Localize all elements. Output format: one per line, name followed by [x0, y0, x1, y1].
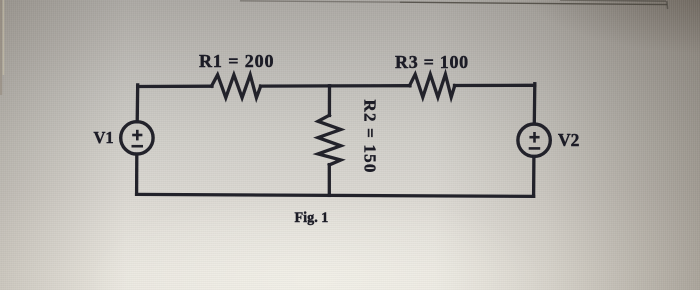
wire left vertical lower — [135, 154, 138, 194]
resistor R1 — [212, 75, 261, 98]
photo left edge — [0, 0, 3, 95]
wire top middle-to-R3 horizontal — [330, 84, 411, 88]
voltage source V1 — [121, 122, 153, 154]
wire top-right horizontal — [455, 84, 535, 87]
wire middle vertical lower — [328, 165, 331, 196]
wire top-middle horizontal — [261, 84, 330, 87]
V1 source polarity marks — [132, 130, 144, 146]
svg-text:R3 = 100: R3 = 100 — [395, 52, 469, 72]
V2 source polarity marks — [529, 132, 541, 148]
svg-text:V1: V1 — [94, 128, 114, 147]
svg-text:R1 = 200: R1 = 200 — [199, 51, 274, 71]
wire top-left horizontal — [138, 85, 212, 89]
wire middle vertical upper — [328, 86, 331, 116]
junction node: middle branch / top wire — [328, 84, 331, 87]
wire right vertical lower — [532, 156, 536, 196]
svg-text:Fig. 1: Fig. 1 — [295, 210, 329, 226]
resistor R2 — [318, 115, 341, 165]
window frame top edge — [240, 0, 668, 9]
svg-text:V2: V2 — [558, 130, 579, 150]
voltage source V2 — [518, 124, 550, 156]
wire left vertical upper — [136, 85, 140, 122]
wire right vertical upper — [533, 84, 537, 124]
resistor R3 — [410, 74, 455, 97]
svg-text:R2 = 150: R2 = 150 — [361, 100, 380, 174]
wire bottom horizontal — [137, 194, 534, 196]
junction node: middle branch / bottom wire — [328, 194, 331, 197]
